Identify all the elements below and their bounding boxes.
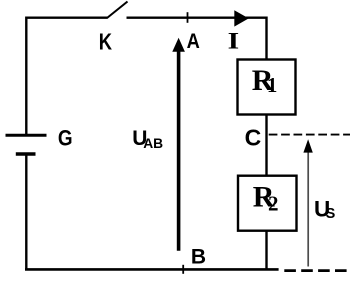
svg-text:S: S	[326, 206, 336, 222]
svg-text:A: A	[187, 30, 200, 54]
svg-text:B: B	[191, 245, 206, 268]
svg-text:1: 1	[267, 73, 278, 97]
svg-text:K: K	[99, 30, 112, 55]
svg-text:I: I	[228, 28, 240, 54]
svg-text:2: 2	[268, 191, 279, 215]
svg-text:C: C	[245, 125, 262, 151]
svg-text:AB: AB	[143, 136, 163, 151]
svg-text:G: G	[58, 126, 73, 151]
